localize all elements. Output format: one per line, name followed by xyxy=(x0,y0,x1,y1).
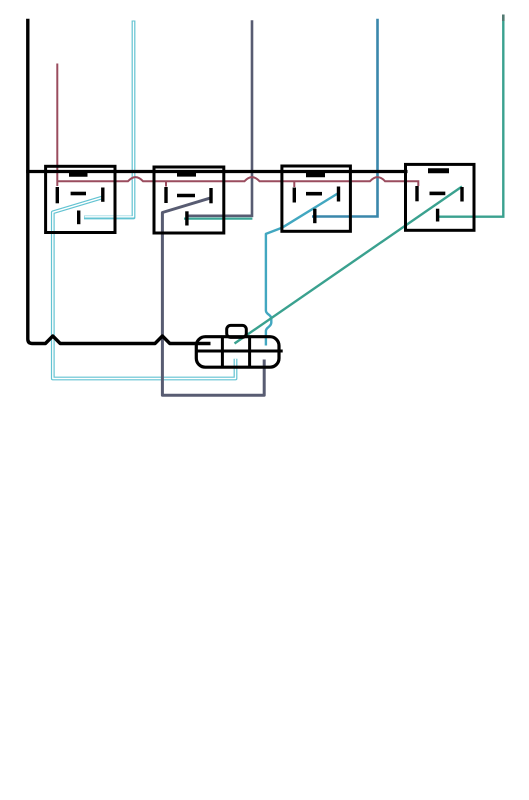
SW3 middle bar xyxy=(306,192,322,196)
SW1 middle bar xyxy=(71,192,86,196)
connector divider left xyxy=(221,337,224,367)
connector horizontal divider xyxy=(197,350,283,353)
wire: blue-cyan lever of SW3 with drop to connector top-right cell (hump over teal diagonal) xyxy=(266,193,339,346)
SW1 left terminal xyxy=(56,187,59,203)
SW2 terminal bar top xyxy=(177,172,196,177)
SW3 right terminal xyxy=(337,187,340,202)
switch SW1 box xyxy=(46,166,115,232)
wire: slate traveler from top into SW2 bottom terminal xyxy=(186,20,252,216)
connector block body xyxy=(196,337,279,368)
connector top tab xyxy=(227,325,247,337)
SW2 left terminal xyxy=(164,187,167,203)
SW4 bottom terminal xyxy=(436,209,439,222)
SW1 bottom terminal xyxy=(77,211,80,225)
SW4 middle bar xyxy=(430,192,446,196)
wire: cyan traveler from top into switch SW1 bottom terminal (double-line style) xyxy=(84,21,134,218)
arrow tip at top of teal wire xyxy=(502,15,505,22)
SW1 terminal bar top xyxy=(69,172,88,177)
wire: cyan lever of SW1 and run down to connector bottom-middle xyxy=(53,197,236,378)
connector divider right xyxy=(248,337,251,367)
wire: slate lever of SW2 and run down to connector bottom-right cell xyxy=(162,198,264,395)
SW2 middle bar xyxy=(177,194,195,198)
switch SW2 box xyxy=(154,167,224,233)
SW4 terminal bar top (bus end) xyxy=(428,168,449,173)
switch SW4 box xyxy=(406,164,475,230)
wire: teal stub from SW2 bottom terminal xyxy=(184,218,252,220)
wire: black feeder vertical + bottom run with humps to connector xyxy=(28,19,211,344)
wire: red switched-hot bus with humps and drops xyxy=(57,64,418,188)
SW3 terminal bar top xyxy=(306,173,325,178)
wire: teal from SW4 bottom terminal to top-right of page xyxy=(439,17,503,217)
wire: teal lever of SW4, long diagonal to connector top-middle cell xyxy=(235,187,463,344)
SW2 bottom terminal xyxy=(185,211,188,225)
SW3 bottom terminal xyxy=(313,209,316,224)
SW4 right terminal xyxy=(460,187,463,202)
SW3 left terminal xyxy=(293,188,296,203)
wire: black neutral bus across switch tops xyxy=(26,170,407,173)
wire: blue traveler from top into SW3 bottom terminal xyxy=(312,19,378,217)
SW4 left terminal xyxy=(415,186,418,201)
switch SW3 box xyxy=(282,166,351,231)
SW2 right terminal xyxy=(209,188,212,203)
SW1 right terminal xyxy=(101,188,104,202)
